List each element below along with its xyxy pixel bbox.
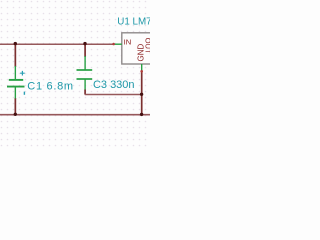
node junction C3 top (83, 42, 86, 45)
node junction C1 bottom (14, 113, 17, 116)
svg-text:C3 330n: C3 330n (93, 79, 135, 91)
svg-text:U1 LM7805: U1 LM7805 (117, 16, 150, 27)
wire C3 bottom vertical (84, 90, 86, 95)
pin IN (1) (114, 43, 122, 45)
capacitor C3 (77, 56, 93, 91)
wire GND pin vertical (141, 71, 143, 115)
wire C1 top vertical (14, 44, 16, 67)
op-amp U1 regulator box (122, 33, 164, 64)
wire GND bottom rail (0, 114, 150, 116)
wire VIN top rail (0, 43, 114, 45)
pin GND (2) (141, 64, 143, 71)
wire middle horizontal to GND pin (85, 94, 142, 96)
svg-text:C1 6.8m: C1 6.8m (27, 80, 73, 92)
wire C3 top vertical (84, 44, 86, 57)
node junction C1 top (14, 42, 17, 45)
wire C1 bottom vertical (14, 98, 16, 115)
node junction GND pin / middle wire (140, 93, 143, 96)
capacitor C1 polarized (7, 66, 25, 99)
node junction bottom rail right (140, 113, 143, 116)
svg-text:IN: IN (124, 38, 132, 47)
svg-text:OUT: OUT (144, 38, 150, 54)
